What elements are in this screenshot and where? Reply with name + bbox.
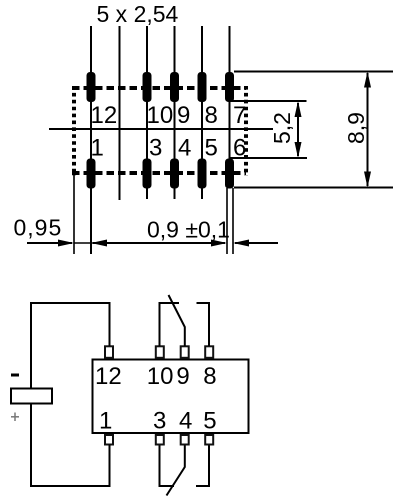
extension line top (8,9 dim): [234, 71, 393, 73]
polarity plus: [11, 413, 19, 422]
svg-text:5: 5: [203, 408, 216, 435]
wire pin column 2/11 centerline: [119, 26, 121, 200]
wire coil loop pin12 to pin1: [31, 303, 110, 486]
svg-text:4: 4: [178, 135, 191, 162]
contact blade pin 4: [167, 446, 185, 496]
pin stub 9: [181, 346, 189, 358]
svg-text:0,9 ±0,1: 0,9 ±0,1: [147, 217, 230, 243]
dimension arrow middle (0,95 / 0,9): [91, 240, 227, 247]
svg-text:10: 10: [147, 363, 174, 390]
wire pin column 4/9 centerline: [174, 26, 176, 199]
pin stub 5: [205, 435, 213, 445]
svg-text:8: 8: [205, 102, 218, 129]
extension line top (5,2 dim): [230, 100, 307, 102]
contact blade pin 9: [169, 295, 185, 346]
pin stub 8: [205, 346, 213, 358]
svg-text:9: 9: [177, 102, 190, 129]
dimension arrow 5,2: [295, 101, 302, 158]
svg-text:5: 5: [205, 135, 218, 162]
dimension arrow 0,95 left: [27, 240, 93, 247]
wire pin 8 with contact bar: [197, 303, 210, 346]
wire pin column 3/10 centerline: [146, 26, 148, 199]
svg-text:10: 10: [147, 102, 174, 129]
pad pin 10: [143, 72, 152, 102]
pin stub 3: [156, 435, 164, 445]
svg-text:12: 12: [95, 363, 122, 390]
svg-text:3: 3: [149, 135, 162, 162]
package outline dashed right edge: [244, 86, 248, 176]
pad pin 3: [143, 159, 152, 189]
center line: [49, 128, 273, 130]
pin stub 10: [156, 346, 164, 358]
pin stub 12: [105, 346, 113, 358]
wire pin column 1/12 centerline: [90, 26, 92, 254]
pad pin 6: [225, 159, 234, 189]
svg-text:5 x 2,54: 5 x 2,54: [97, 1, 179, 27]
dimension arrow 8,9: [364, 72, 371, 188]
extension line package left edge (0,95 dim): [73, 170, 75, 254]
wire pin column 5/8 centerline: [201, 26, 203, 199]
pin stub 1: [105, 435, 113, 445]
svg-text:9: 9: [176, 363, 189, 390]
svg-text:1: 1: [99, 408, 112, 435]
extension line bottom (5,2 dim): [230, 157, 307, 159]
relay body: [93, 360, 249, 434]
extension line pad left edge (0,9 dim): [226, 188, 228, 254]
wire pin column 6/7 centerline: [229, 26, 231, 160]
wire pin 10 with contact bar: [160, 303, 180, 346]
coil: [11, 389, 52, 404]
pad pin 9: [170, 72, 179, 102]
extension line bottom (8,9 dim): [234, 187, 393, 189]
pin stub 4: [181, 435, 189, 445]
svg-text:4: 4: [179, 408, 192, 435]
package outline dashed bottom edge: [72, 171, 246, 175]
package outline dashed top edge: [72, 86, 246, 90]
pad pin 4: [170, 159, 179, 189]
package outline dashed left edge: [72, 86, 76, 176]
svg-text:12: 12: [91, 102, 118, 129]
svg-text:7: 7: [233, 102, 246, 129]
wire pin 3 with contact bar: [160, 446, 175, 487]
svg-text:5,2: 5,2: [269, 112, 295, 144]
pad pin 8: [198, 72, 207, 102]
pad pin 5: [198, 159, 207, 189]
pad pin 12: [87, 72, 96, 102]
pad pin 7: [225, 72, 234, 102]
pad pin 1: [87, 159, 96, 189]
svg-text:1: 1: [91, 135, 104, 162]
extension line pad right edge (0,9 dim): [232, 188, 234, 254]
dimension arrow 0,9 right: [233, 240, 278, 247]
polarity minus: [11, 374, 19, 377]
wire pin 5 with contact bar: [196, 446, 209, 487]
svg-text:8,9: 8,9: [343, 112, 369, 144]
svg-text:3: 3: [153, 408, 166, 435]
svg-text:0,95: 0,95: [14, 215, 63, 241]
svg-text:8: 8: [203, 363, 216, 390]
